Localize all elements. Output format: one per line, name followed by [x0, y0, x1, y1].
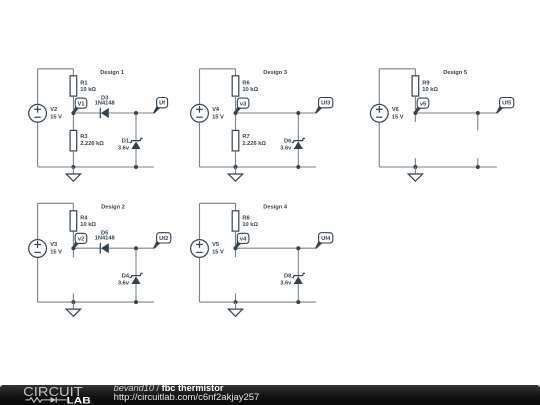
svg-text:10 kΩ: 10 kΩ	[80, 222, 96, 228]
resistor R7	[232, 113, 239, 167]
wire D4 source bottom lead	[199, 257, 201, 302]
net flag v3 (node v3)	[235, 98, 249, 114]
ground GND design 5	[408, 167, 422, 181]
resistor R8	[232, 203, 239, 248]
footer bar	[0, 385, 540, 405]
wire D1 top rail	[38, 68, 74, 70]
svg-text:1N4148: 1N4148	[95, 100, 115, 106]
wire D2 bottom rail	[38, 301, 154, 303]
svg-text:15 V: 15 V	[212, 250, 224, 256]
svg-text:V3: V3	[50, 242, 57, 248]
logo resistor zigzag	[26, 398, 51, 403]
wire D4 source top lead	[199, 203, 201, 239]
svg-text:15 V: 15 V	[50, 250, 62, 256]
wire D5 top rail	[379, 68, 415, 70]
svg-text:Uf3: Uf3	[321, 101, 330, 107]
wire D2 diode to output	[109, 247, 154, 249]
junction D3 bottom rail / ground	[234, 165, 238, 169]
junction D3 node at v3	[234, 111, 238, 115]
wire D2 top rail	[38, 202, 74, 204]
junction D4 bottom rail / ground	[234, 300, 238, 304]
wire D4 node to output	[236, 247, 317, 249]
wire D5 source bottom lead	[378, 122, 380, 167]
ground GND design 2	[66, 302, 80, 316]
junction D2 node wire / zener branch	[134, 246, 138, 250]
resistor R6	[232, 69, 239, 113]
wire D2 open stub above bottom rail	[72, 293, 74, 302]
ground GND design 3	[228, 167, 242, 181]
wire D1 diode to output	[109, 112, 154, 114]
svg-text:2.226 kΩ: 2.226 kΩ	[80, 141, 104, 147]
logo diode	[51, 397, 57, 403]
svg-text:V2: V2	[50, 107, 57, 113]
wire D5 open stub below node at removed zener	[477, 113, 479, 131]
net flag v2 (node v2)	[73, 233, 87, 249]
svg-text:15 V: 15 V	[50, 115, 62, 121]
output flag Uf2 (output Uf2)	[153, 233, 171, 249]
logo wire to LAB	[56, 399, 66, 401]
svg-text:D1: D1	[122, 139, 129, 145]
svg-text:10 kΩ: 10 kΩ	[242, 87, 258, 93]
wire D4 top rail	[200, 202, 236, 204]
svg-text:R7: R7	[242, 134, 249, 140]
wire D2 source bottom lead	[37, 257, 39, 302]
wire D4 open stub above bottom rail	[235, 293, 237, 302]
wire D1 bottom rail	[38, 166, 154, 168]
ground GND design 4	[228, 302, 242, 316]
voltage source V5	[191, 240, 209, 258]
output flag Uf4 (output Uf4)	[315, 233, 333, 249]
svg-text:R8: R8	[242, 216, 249, 222]
svg-text:Design 1: Design 1	[100, 70, 124, 76]
svg-text:Uf5: Uf5	[502, 101, 511, 107]
wire D5 bottom rail	[379, 166, 497, 168]
resistor R9	[412, 69, 419, 113]
svg-text:10 kΩ: 10 kΩ	[242, 222, 258, 228]
byline	[114, 384, 224, 393]
junction D4 bottom rail / zener branch	[296, 300, 300, 304]
junction D1 bottom rail / zener branch	[134, 165, 138, 169]
zener diode D4	[129, 248, 142, 302]
junction D2 node at v2	[71, 246, 75, 250]
svg-text:R4: R4	[80, 216, 88, 222]
CircuitLab logo	[0, 384, 100, 405]
net flag v4 (node v4)	[235, 233, 249, 249]
output flag Uf3 (output Uf3)	[315, 98, 333, 114]
svg-text:10 kΩ: 10 kΩ	[80, 87, 96, 93]
svg-text:10 kΩ: 10 kΩ	[422, 87, 438, 93]
wire D3 source top lead	[199, 69, 201, 105]
svg-text:3.6v: 3.6v	[280, 146, 292, 152]
diode D3	[100, 108, 109, 119]
svg-text:Design 3: Design 3	[263, 70, 287, 76]
svg-text:V4: V4	[212, 107, 220, 113]
resistor R3	[70, 113, 77, 167]
wire D5 open stub below node	[414, 113, 416, 122]
wire D3 source bottom lead	[199, 122, 201, 167]
svg-text:v3: v3	[240, 101, 246, 107]
resistor R1	[70, 69, 77, 113]
svg-text:LAB: LAB	[67, 396, 92, 405]
junction D3 node wire / zener branch	[296, 111, 300, 115]
junction D5 node at v5	[413, 111, 417, 115]
zener diode D8	[292, 248, 305, 302]
svg-text:D8: D8	[284, 274, 291, 280]
svg-text:3.6v: 3.6v	[118, 281, 130, 287]
wire D3 node to output	[236, 112, 317, 114]
svg-text:R3: R3	[80, 134, 87, 140]
svg-text:R1: R1	[80, 81, 87, 87]
junction D4 node wire / zener branch	[296, 246, 300, 250]
output flag Uf (output Uf)	[153, 98, 168, 114]
wire D4 open stub below node	[235, 248, 237, 257]
svg-text:15 V: 15 V	[392, 115, 404, 121]
junction D1 node wire / zener branch	[134, 111, 138, 115]
zener diode D1	[129, 113, 142, 167]
wire D1 source bottom lead	[37, 122, 39, 167]
wire D1 node to diode	[73, 112, 100, 114]
svg-text:V1: V1	[78, 101, 85, 107]
svg-text:V5: V5	[212, 242, 219, 248]
wire D5 source top lead	[378, 69, 380, 105]
junction D5 bottom rail / zener branch	[476, 165, 480, 169]
svg-text:Uf: Uf	[159, 101, 165, 107]
diode D5	[100, 243, 109, 254]
voltage source V3	[29, 240, 47, 258]
svg-text:v2: v2	[78, 237, 84, 243]
svg-text:Design 5: Design 5	[443, 70, 467, 76]
wire D1 source top lead	[37, 69, 39, 105]
svg-text:v4: v4	[240, 237, 247, 243]
svg-text:D4: D4	[122, 274, 130, 280]
svg-text:D6: D6	[284, 139, 291, 145]
wire D2 node to diode	[73, 247, 100, 249]
junction D5 bottom rail / ground	[413, 165, 417, 169]
wire D5 open stub above bottom rail at removed zener	[477, 158, 479, 167]
resistor R4	[70, 203, 77, 248]
svg-text:3.6v: 3.6v	[118, 146, 130, 152]
junction D4 node at v4	[234, 246, 238, 250]
output flag Uf5 (output Uf5)	[496, 98, 514, 114]
wire D4 bottom rail	[200, 301, 317, 303]
svg-text:Uf4: Uf4	[321, 236, 331, 242]
wire D2 source top lead	[37, 203, 39, 239]
url	[114, 393, 260, 403]
junction D2 bottom rail / zener branch	[134, 300, 138, 304]
svg-text:15 V: 15 V	[212, 115, 224, 121]
svg-text:Uf2: Uf2	[159, 236, 168, 242]
svg-text:3.6v: 3.6v	[280, 281, 292, 287]
zener diode D6	[292, 113, 305, 167]
junction D5 node wire / zener branch	[476, 111, 480, 115]
voltage source V4	[191, 104, 209, 122]
svg-text:R6: R6	[242, 81, 249, 87]
ground GND design 1	[66, 167, 80, 181]
junction D1 bottom rail / ground	[71, 165, 75, 169]
svg-text:v5: v5	[420, 101, 426, 107]
svg-text:R9: R9	[422, 81, 429, 87]
junction D1 node at V1	[71, 111, 75, 115]
junction D2 bottom rail / ground	[71, 300, 75, 304]
svg-text:Design 4: Design 4	[263, 204, 288, 210]
wire D2 open stub below node	[72, 248, 74, 257]
svg-text:1N4148: 1N4148	[95, 235, 115, 241]
net flag V1 (node V1)	[73, 98, 87, 114]
wire D5 node to output	[415, 112, 497, 114]
svg-text:Design 2: Design 2	[101, 204, 125, 210]
voltage source V6	[370, 104, 388, 122]
svg-text:2.226 kΩ: 2.226 kΩ	[242, 141, 266, 147]
svg-text:V6: V6	[392, 107, 399, 113]
voltage source V2	[29, 104, 47, 122]
junction D3 bottom rail / zener branch	[296, 165, 300, 169]
wire D5 open stub above bottom rail	[414, 158, 416, 167]
wire D3 top rail	[200, 68, 236, 70]
net flag v5 (node v5)	[415, 98, 429, 114]
wire D3 bottom rail	[200, 166, 317, 168]
